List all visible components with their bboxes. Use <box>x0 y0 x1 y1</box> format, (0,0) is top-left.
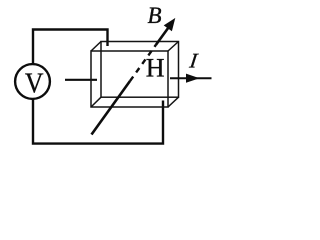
wire bottom from voltmeter to bottom face of sample <box>33 99 163 144</box>
label B <box>148 3 162 28</box>
label I <box>187 49 199 73</box>
magnetic field B arrow shaft <box>156 28 169 46</box>
voltmeter V1 circle <box>15 64 50 99</box>
svg-text:B: B <box>148 3 162 28</box>
svg-text:I: I <box>187 49 199 73</box>
magnetic field B axis solid lower segment <box>92 81 131 135</box>
magnetic field B axis dashed segment inside box <box>130 45 156 81</box>
Hall sample box front face <box>91 51 168 107</box>
voltmeter label V <box>25 67 44 99</box>
label H <box>146 53 165 82</box>
magnetic field B arrowhead <box>165 19 175 30</box>
wire current lead exiting right face <box>170 77 212 79</box>
current direction arrowhead I <box>186 74 200 83</box>
Hall sample box back face <box>101 42 179 98</box>
wire top from voltmeter to top face of sample <box>33 30 108 65</box>
svg-text:H: H <box>146 53 165 82</box>
svg-text:V: V <box>25 67 44 99</box>
Hall sample box oblique edges <box>91 42 179 108</box>
wire current lead stub entering left face <box>65 79 97 81</box>
